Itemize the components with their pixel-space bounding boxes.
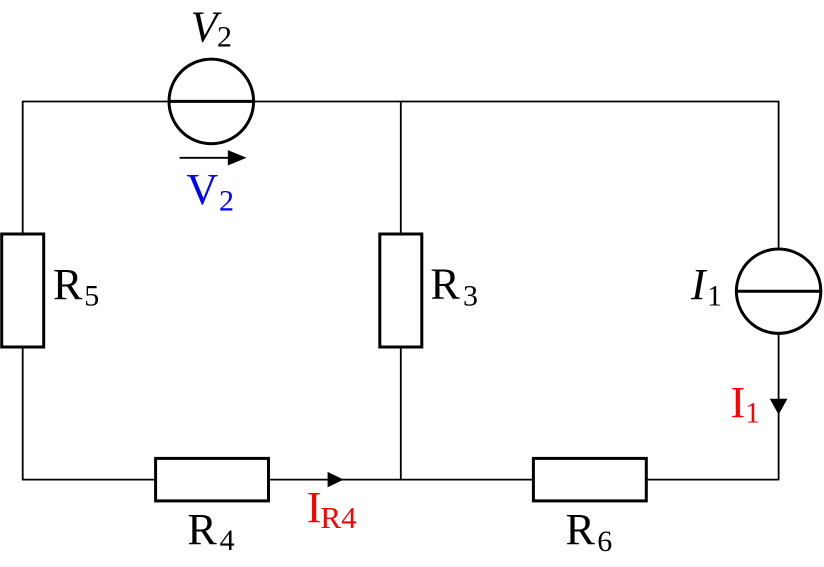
svg-text:2: 2 — [219, 184, 234, 217]
svg-text:3: 3 — [463, 280, 478, 313]
resistor R5 — [2, 234, 44, 347]
wire top — [23, 101, 779, 103]
wire middle lower — [400, 347, 402, 480]
wire right upper — [778, 101, 780, 250]
svg-text:I: I — [731, 378, 746, 427]
arrow for I1 current direction — [770, 399, 788, 415]
voltage source V2 — [169, 59, 254, 144]
resistor R6 — [533, 458, 646, 501]
wire left lower — [22, 347, 24, 480]
svg-text:R: R — [53, 260, 83, 309]
arrow for V2 voltage direction — [180, 150, 247, 165]
label R6 — [566, 505, 613, 558]
svg-text:1: 1 — [745, 397, 760, 430]
label I1 (red annotation) — [731, 378, 761, 430]
label R4 — [187, 505, 234, 557]
label R3 — [430, 260, 478, 313]
wire middle upper — [400, 102, 402, 235]
svg-text:R: R — [430, 260, 460, 309]
wire left upper — [22, 101, 24, 234]
resistor R4 — [156, 458, 269, 501]
current source I1 — [736, 249, 820, 333]
resistor R3 — [380, 234, 422, 347]
svg-text:5: 5 — [84, 280, 99, 313]
svg-text:I: I — [307, 483, 322, 532]
svg-text:R4: R4 — [320, 500, 357, 535]
wire bottom middle segment — [267, 479, 535, 481]
svg-text:V: V — [186, 165, 218, 214]
svg-text:R: R — [566, 505, 596, 554]
svg-text:2: 2 — [217, 21, 232, 54]
svg-text:6: 6 — [597, 525, 612, 558]
svg-text:R: R — [187, 505, 217, 554]
arrow for IR4 current direction — [328, 472, 344, 487]
wire bottom left segment — [23, 479, 158, 481]
label V2 (blue annotation) — [186, 165, 234, 217]
label V2 (source name) — [191, 3, 232, 54]
label R5 — [53, 260, 99, 313]
label I1 (source name) — [690, 260, 722, 312]
wire bottom right segment — [645, 479, 779, 481]
svg-text:I: I — [690, 260, 708, 309]
svg-text:4: 4 — [220, 524, 235, 557]
wire right lower — [778, 333, 780, 480]
svg-text:1: 1 — [707, 279, 722, 312]
label IR4 (red annotation) — [307, 483, 357, 535]
